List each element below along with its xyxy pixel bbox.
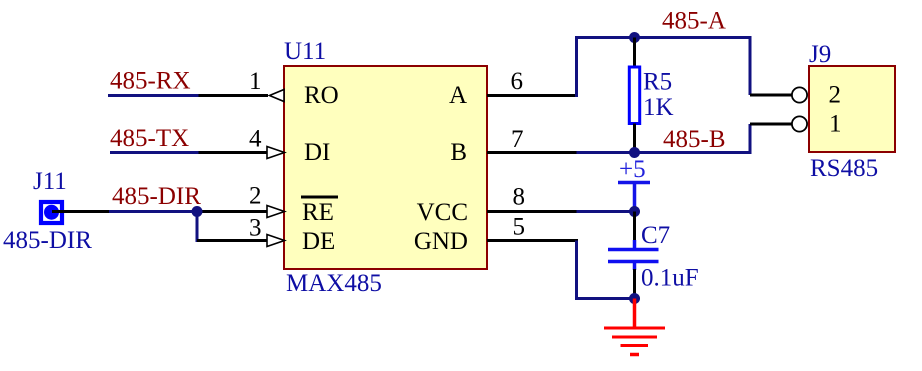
wire 485-A right vertical blue (749, 36, 752, 95)
svg-text:8: 8 (513, 184, 526, 211)
svg-text:485-DIR: 485-DIR (3, 227, 92, 254)
resistor R5 body (629, 67, 639, 124)
capacitor C7 top lead black (633, 212, 636, 242)
svg-text:485-RX: 485-RX (110, 68, 191, 95)
wire pin8 blue segment (577, 210, 638, 213)
svg-text:RE: RE (302, 199, 334, 226)
ground stem (633, 299, 637, 329)
svg-text:DE: DE (302, 228, 335, 255)
svg-text:J9: J9 (809, 41, 831, 68)
wire 485-RX blue segment (108, 94, 199, 97)
wire to J9 pin1 black stub (750, 123, 793, 126)
node VCC junction (629, 206, 640, 217)
svg-text:485-B: 485-B (663, 126, 726, 153)
svg-text:1: 1 (829, 111, 842, 138)
svg-text:6: 6 (511, 68, 524, 95)
pin 1 output arrow (270, 90, 285, 102)
IC U11 body (284, 66, 487, 269)
wire 485-B horizontal blue (577, 151, 752, 154)
capacitor C7 bottom lead blue (633, 262, 637, 271)
wire 485-A left vertical blue (575, 36, 578, 97)
svg-text:RO: RO (304, 82, 339, 109)
svg-text:RS485: RS485 (810, 155, 878, 182)
node 485-DIR junction (192, 206, 203, 217)
svg-text:7: 7 (511, 126, 524, 153)
connector J11 pad (41, 202, 62, 223)
svg-text:J11: J11 (33, 168, 67, 195)
wire junction down blue segment (196, 212, 199, 243)
svg-text:4: 4 (249, 126, 262, 153)
node GND junction (629, 293, 640, 304)
J9 pin 1 circle (792, 116, 807, 131)
svg-text:5: 5 (513, 214, 526, 241)
capacitor C7 bottom lead black (633, 269, 636, 300)
svg-text:0.1uF: 0.1uF (641, 265, 699, 292)
svg-text:3: 3 (249, 215, 262, 242)
capacitor C7 top lead blue (633, 240, 637, 250)
resistor R5 top lead (633, 38, 636, 68)
wire pin5 bottom blue segment (575, 297, 635, 300)
pin 2 input arrow (267, 206, 285, 218)
svg-text:2: 2 (249, 183, 262, 210)
svg-text:485-DIR: 485-DIR (112, 183, 201, 210)
wire 485-TX blue segment (110, 151, 199, 154)
wire 485-B right vertical blue (749, 124, 752, 154)
svg-text:1K: 1K (643, 94, 674, 121)
svg-text:A: A (449, 82, 467, 109)
ground bar 2 (612, 336, 657, 339)
wire to pin3 black segment (197, 239, 267, 242)
RE overline (301, 196, 338, 199)
svg-text:B: B (450, 139, 467, 166)
node 485-A junction (629, 32, 640, 43)
svg-text:C7: C7 (641, 222, 670, 249)
power +5 bar (618, 181, 650, 185)
resistor R5 bottom lead (633, 124, 636, 153)
svg-text:1: 1 (249, 68, 262, 95)
svg-text:MAX485: MAX485 (286, 270, 382, 297)
wire pin5 down blue segment (575, 241, 578, 299)
svg-text:2: 2 (829, 82, 842, 109)
wire 485-A top horizontal blue (575, 36, 752, 39)
svg-text:GND: GND (414, 228, 468, 255)
svg-text:R5: R5 (643, 69, 672, 96)
wire pin4 black segment (199, 151, 268, 154)
svg-text:U11: U11 (284, 38, 326, 65)
wire pin6 black segment (487, 94, 578, 97)
capacitor C7 bottom plate (608, 260, 659, 264)
svg-text:VCC: VCC (417, 199, 468, 226)
power +5 stem (633, 183, 637, 212)
svg-text:DI: DI (304, 139, 330, 166)
ground bar 4 (630, 353, 639, 357)
node 485-B junction (629, 147, 640, 158)
svg-text:485-TX: 485-TX (110, 125, 189, 152)
connector J9 body (809, 66, 895, 152)
ground bar 1 (604, 327, 665, 330)
capacitor C7 top plate (608, 248, 659, 252)
svg-text:+5: +5 (619, 156, 646, 183)
pin 3 input arrow (267, 235, 285, 247)
wire to J9 pin2 black stub (750, 94, 793, 97)
wire pin1 black segment (199, 94, 269, 97)
svg-text:485-A: 485-A (662, 8, 726, 35)
wire 485-DIR blue segment (109, 210, 197, 213)
J9 pin 2 circle (792, 87, 807, 102)
ground bar 3 (621, 344, 649, 347)
wire pin7 black segment (487, 151, 578, 154)
wire pin5 black segment (487, 239, 578, 242)
wire junction to pin2 black segment (197, 210, 267, 213)
pin 4 input arrow (267, 147, 285, 159)
wire pin8 black segment (487, 210, 578, 213)
wire J11 to net black segment (52, 210, 109, 213)
